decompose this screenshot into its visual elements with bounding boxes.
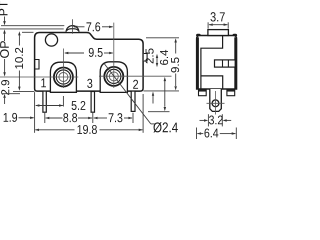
dim 3.2 arrows [200,119,205,121]
operating position line [0,28,64,30]
terminal pin 3 [91,92,94,113]
dim 3.2 ticks [207,114,209,126]
left rivet vertical centerline [62,49,64,89]
bottom ext line left [13,90,34,92]
dim 9.5v line [174,38,177,42]
dim 9.5v label [171,57,179,72]
dim 2.9 arrow up [3,94,6,98]
dim 2.5 label [145,48,153,63]
right side notch [144,54,147,62]
contact block 3 cells [215,60,236,67]
left stub terminal [199,90,207,96]
terminal pin 2 [131,91,135,111]
seating plane ext line [3,93,21,95]
end view left wall [196,37,198,88]
end view left corner ear [197,34,201,36]
mounting tab [210,89,222,111]
dim 3.7 label [211,12,225,21]
dim 6.4 ticks [196,128,198,140]
tab hole [212,100,219,107]
dim 6.4 label [160,50,168,65]
dim 7.3 label [109,113,123,122]
right stub terminal [227,90,235,96]
pivot hole [45,34,57,46]
right edge extension line [142,94,144,133]
end view plunger [208,30,229,36]
pin label 2 [133,80,138,89]
switch body outline (side view) [35,33,144,92]
dim 10.2 label [15,48,23,69]
pin label 1 [41,78,46,87]
dia 2.4 label [153,122,177,132]
dim 9.5 line [65,52,84,54]
dim 7.6 line [74,26,85,28]
OP arrow down to centerline [4,59,6,75]
left side notch [35,60,39,70]
rivet center ext tick [62,96,64,107]
dim 7.3 line [93,117,97,119]
dim 2.5 line [156,54,158,58]
interior step outline [201,36,223,89]
PT label [0,1,8,15]
tab hole crosshair [207,102,225,104]
plunger button dome [66,26,79,32]
interior lower block [201,76,223,89]
OP arrow up [3,29,6,33]
dim 5.2 line [35,104,39,107]
dim 10.2 line upper [18,31,21,35]
terminal pin 1 [43,91,46,112]
dia 2.4 leader [105,64,151,124]
dim 8.8 line [45,117,49,119]
free position line [1,25,64,27]
end view body [197,36,237,90]
left terminal boss [50,62,76,92]
end view right wall [234,37,236,88]
left rivet horizontal centerline / OP reference [0,76,78,78]
top edge ext line [146,37,179,39]
OP label [0,41,9,58]
dim 3.2 label [209,116,223,125]
PT arrow down [4,17,6,25]
dim 1.9 arrow [19,117,34,119]
end view right corner ear [233,34,237,36]
right rivet horizontal centerline extended [99,75,172,77]
dim 9.5 label [89,48,103,57]
pin3 tick [92,113,94,123]
dim 19.8 label [77,125,96,134]
pin1 tick [44,113,46,123]
right rivet circles [104,67,123,86]
dim 6.4h line [197,132,201,135]
dim 2.9 label [1,80,9,95]
pin bottom ext line [148,111,170,113]
dim 19.8 line [35,129,39,132]
body top ext line left [22,31,34,33]
pin label 3 [87,79,92,88]
pin protrusion arrow [152,92,154,96]
dim 6.4 line [164,77,167,81]
dim 1.9 label [4,113,17,122]
dim 7.6 label [86,22,100,31]
right terminal boss [100,62,127,93]
bottom edge ext line right [144,90,180,92]
left edge extension line [34,92,36,133]
dim 3.7 line [207,22,209,28]
dim 8.8 label [63,113,77,122]
right rivet vertical centerline / 7.6 extension [113,23,115,88]
dim 5.2 label [72,101,86,110]
dim 10.2 line lower [18,71,20,90]
button centerline [72,19,74,34]
pin2 tick [132,113,134,123]
dim 6.4h label [204,128,218,137]
left rivet circles [54,68,73,87]
